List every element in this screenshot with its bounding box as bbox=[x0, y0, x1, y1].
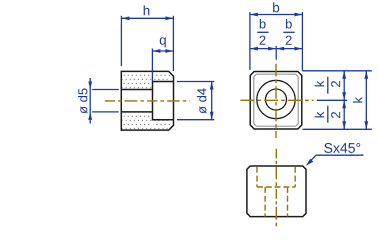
outer circle d4 bbox=[257, 80, 295, 118]
dimension b arrows bbox=[250, 13, 303, 17]
label q bbox=[160, 37, 166, 47]
dimension h arrows bbox=[121, 16, 173, 20]
left section view stipple top-left band bbox=[122, 72, 152, 89]
counterbore d4 walls bbox=[153, 82, 174, 120]
dimension q arrows bbox=[152, 49, 173, 53]
hidden counterbore right line bbox=[294, 167, 296, 187]
vertical centerline bottom view bbox=[275, 149, 277, 229]
hidden counterbore left line bbox=[257, 167, 295, 217]
dimension q bbox=[152, 49, 173, 82]
b/2 right arrows bbox=[276, 47, 302, 51]
horizontal centerline top view bbox=[240, 99, 313, 101]
label k/2 bottom bbox=[315, 106, 341, 123]
dimension k arrows bbox=[364, 71, 368, 130]
label k/2 top bbox=[315, 77, 341, 94]
dimension d5 outside arrows bbox=[88, 82, 92, 120]
label b bbox=[273, 2, 279, 12]
stipple bottom-left band bbox=[122, 113, 152, 130]
top view inner chamfer square bbox=[254, 74, 298, 126]
dimension d4 arrows bbox=[210, 82, 214, 120]
dimension h extension lines bbox=[121, 16, 173, 71]
vertical centerline top view bbox=[275, 64, 277, 138]
k/2 top arrows bbox=[342, 71, 346, 101]
hidden hole left line bbox=[264, 187, 266, 217]
dimension d4 extension+dim lines bbox=[177, 82, 214, 120]
bore d5 bottom line bbox=[121, 111, 152, 113]
left view body outline bbox=[121, 71, 173, 130]
dimension b extension lines bbox=[250, 12, 303, 71]
inner circle d5 bbox=[266, 89, 287, 110]
k/2 bottom arrows bbox=[342, 100, 346, 129]
dimension b/2 left bbox=[250, 46, 276, 60]
centerline left view bbox=[105, 100, 190, 102]
b/2 left arrows bbox=[250, 47, 276, 51]
label k bbox=[353, 97, 362, 103]
label d5 bbox=[78, 88, 88, 113]
stipple top-right band bbox=[153, 72, 171, 81]
hidden counterbore bottom line bbox=[257, 186, 295, 188]
dimension d5 extension+dim lines bbox=[90, 78, 119, 124]
label Sx45 bbox=[324, 143, 360, 153]
label d4 bbox=[197, 88, 207, 113]
label b/2 right bbox=[283, 19, 294, 45]
dimension k extension lines bbox=[302, 71, 371, 130]
chamfer callout leader bbox=[308, 155, 364, 164]
hidden hole right line bbox=[287, 187, 289, 217]
bore d5 top line bbox=[121, 89, 152, 91]
stipple bottom-right band bbox=[153, 121, 171, 130]
leader arrow bbox=[306, 159, 313, 166]
top view outer square bbox=[250, 72, 302, 130]
bottom view body bbox=[247, 166, 306, 217]
label h bbox=[144, 5, 150, 15]
dimension k/2 bottom bbox=[343, 100, 345, 129]
label b/2 left bbox=[257, 19, 268, 45]
dimension b/2 right bbox=[276, 48, 302, 50]
dimension k/2 top bbox=[317, 71, 347, 101]
